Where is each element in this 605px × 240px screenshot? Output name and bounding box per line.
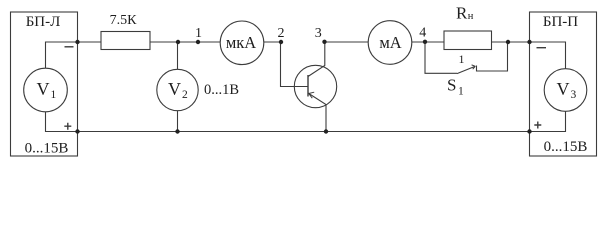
svg-text:0...15В: 0...15В <box>25 141 69 157</box>
svg-text:1: 1 <box>459 52 465 66</box>
svg-text:2: 2 <box>278 26 285 41</box>
svg-text:S: S <box>447 76 456 95</box>
svg-text:7.5К: 7.5К <box>110 13 138 28</box>
svg-text:1: 1 <box>195 26 202 41</box>
svg-text:3: 3 <box>571 89 577 101</box>
svg-text:4: 4 <box>419 26 426 41</box>
svg-text:1: 1 <box>51 89 57 101</box>
svg-text:н: н <box>468 11 474 22</box>
svg-text:мкА: мкА <box>226 33 256 52</box>
svg-text:V: V <box>168 79 181 99</box>
svg-text:мА: мА <box>379 33 401 52</box>
svg-text:R: R <box>456 4 468 23</box>
svg-text:0...15В: 0...15В <box>544 139 588 155</box>
svg-text:2: 2 <box>182 89 188 101</box>
svg-text:БП-П: БП-П <box>543 14 578 30</box>
svg-text:БП-Л: БП-Л <box>26 14 61 30</box>
svg-text:3: 3 <box>315 26 322 41</box>
svg-text:V: V <box>37 79 50 99</box>
svg-text:0...1В: 0...1В <box>204 82 239 98</box>
svg-text:1: 1 <box>458 86 464 98</box>
svg-text:V: V <box>557 79 570 99</box>
